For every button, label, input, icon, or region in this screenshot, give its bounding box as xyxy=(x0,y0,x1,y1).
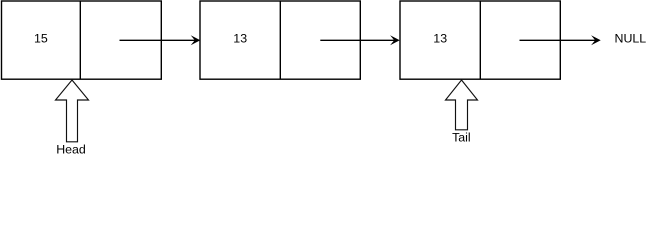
svg-text:Tail: Tail xyxy=(452,131,471,145)
svg-text:Head: Head xyxy=(56,143,86,157)
svg-text:NULL: NULL xyxy=(615,32,647,46)
svg-text:15: 15 xyxy=(34,32,48,46)
svg-text:13: 13 xyxy=(233,32,247,46)
svg-text:13: 13 xyxy=(433,32,447,46)
